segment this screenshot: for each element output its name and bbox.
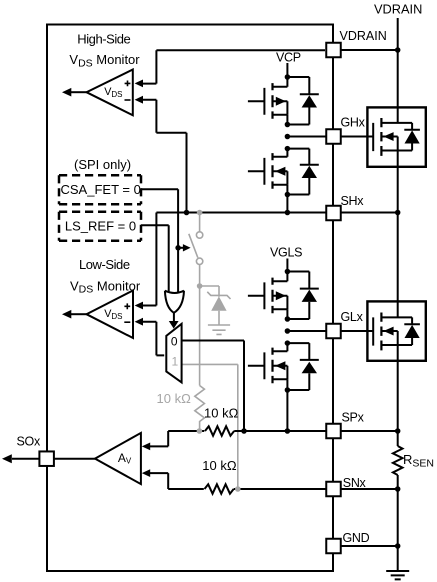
node (GND / ground) bbox=[395, 543, 401, 549]
svg-text:SOx: SOx bbox=[17, 434, 41, 448]
op-amp U1 (high-side VDS monitor) bbox=[87, 70, 133, 116]
wire (mux input 0 to SPx) bbox=[182, 341, 244, 432]
svg-text:VCP: VCP bbox=[276, 51, 301, 65]
box (external low-side FET module) bbox=[367, 301, 425, 360]
wire GLx (driver to square to ext FET gate) bbox=[287, 330, 373, 332]
arrowhead (U3 - input) bbox=[142, 469, 150, 477]
BLACK WIRE LAYER bbox=[47, 18, 409, 579]
border (device outline) bbox=[47, 25, 333, 572]
wire GHx (driver to square to ext FET gate) bbox=[287, 136, 373, 138]
svg-text:10 kΩ: 10 kΩ bbox=[202, 458, 237, 473]
svg-text:VGLS: VGLS bbox=[270, 246, 302, 260]
terminal GHx bbox=[326, 129, 341, 144]
wire (low-side monitor - input to mux out) bbox=[143, 322, 165, 356]
diode D4 (body diode of Q3) bbox=[287, 272, 318, 320]
wire (switch to grey node) bbox=[199, 265, 201, 287]
node (Q4 source / D5 anode) bbox=[285, 387, 291, 393]
wire (CSA_FET box to OR gate) bbox=[141, 189, 178, 292]
OR gate U4 bbox=[165, 291, 184, 313]
wire (ext FET1 source to SHx and down to ext FET2) bbox=[397, 151, 399, 318]
node (Q2 drain / D3) bbox=[285, 146, 291, 152]
terminal SNx bbox=[326, 482, 341, 497]
transistor Q3 (internal driver, high-side of GLx, P-type) bbox=[248, 272, 288, 320]
wire SHx (monitor corner to square to ext rail) bbox=[156, 212, 397, 214]
wire VGLS to driver FETs bbox=[286, 259, 288, 272]
svg-text:CSA_FET = 0: CSA_FET = 0 bbox=[61, 182, 141, 197]
op-amp U3 (current sense amplifier Av) bbox=[95, 433, 141, 484]
node (Q4 drain / D5) bbox=[285, 340, 291, 346]
node (SHx / monitor -) bbox=[184, 210, 190, 216]
pin + (U2) bbox=[124, 303, 130, 309]
node (GLx) bbox=[285, 328, 291, 334]
terminal SOx bbox=[39, 451, 54, 466]
resistor RSEN bbox=[393, 446, 403, 475]
wire (Av - input to SNx resistor) bbox=[149, 473, 204, 489]
resistor 10k (grey, SPx pull) bbox=[195, 386, 205, 432]
zener diode D1 (grey clamp) bbox=[207, 292, 230, 325]
wire VDRAIN rail (external, top) bbox=[397, 18, 399, 123]
node (VCP) bbox=[285, 74, 291, 80]
terminal GLx bbox=[326, 324, 341, 339]
transistor Q5 (external high-side power FET) bbox=[367, 118, 413, 156]
wire (SHx tap to switch) bbox=[199, 213, 201, 233]
GREY LAYER bbox=[157, 213, 238, 490]
wire VCP to driver FETs bbox=[286, 63, 288, 77]
dashed box (CSA_FET = 0, SPI register) bbox=[59, 175, 141, 204]
box (external high-side FET module) bbox=[367, 107, 425, 166]
wire GND (square to ext ground) bbox=[333, 545, 398, 547]
wire (SOx square to Av) bbox=[47, 458, 95, 460]
resistor 10k (SNx sense, black) bbox=[205, 484, 234, 493]
node (SHx / external rail) bbox=[395, 210, 401, 216]
GREY JUNCTION DOTS (over wires) bbox=[197, 210, 241, 492]
node (SHx / driver) bbox=[285, 210, 291, 216]
node (grey junction on SNx wire) bbox=[235, 486, 241, 492]
arrowhead (U3 + input) bbox=[142, 443, 150, 451]
wire SPx (resistor to square to ext rail) bbox=[234, 430, 398, 432]
diode D5 (body diode of Q4) bbox=[287, 343, 318, 390]
node (Q1 source / D2) bbox=[285, 122, 291, 128]
mux M1 (LS_REF select) bbox=[166, 324, 181, 383]
transistor Q4 (internal driver, low-side of GLx, N-type) bbox=[248, 343, 288, 390]
node (CSA_FET line / switch arrow) bbox=[175, 245, 181, 251]
diode D2 (body diode of Q1) bbox=[287, 77, 318, 125]
pin + (U1) bbox=[125, 81, 131, 87]
wire (driver chain bottom to SPx) bbox=[286, 390, 288, 431]
transistor Q1 (internal driver, high-side of GHx, P-type) bbox=[248, 77, 288, 125]
pin - (U1) bbox=[125, 99, 131, 101]
TERMINAL SQUARES bbox=[39, 43, 340, 554]
node (grey junction on SPx wire) bbox=[197, 428, 203, 434]
diode D6 (body diode of Q5) bbox=[404, 123, 420, 151]
arrowhead (U1 - input) bbox=[135, 96, 143, 104]
node (VGLS) bbox=[285, 269, 291, 275]
svg-text:0: 0 bbox=[171, 334, 178, 348]
wire SPx (left segment with Av + input) bbox=[149, 431, 204, 446]
node (SNx / RSEN) bbox=[395, 486, 401, 492]
resistor 10k (SPx sense, black) bbox=[205, 426, 234, 435]
wire (RSEN to GND node and ground) bbox=[397, 475, 399, 571]
svg-text:GLx: GLx bbox=[341, 310, 364, 324]
terminal GND bbox=[326, 539, 341, 554]
wire (VDS monitor + input to VDRAIN) bbox=[143, 50, 325, 83]
transistor Q6 (external low-side power FET) bbox=[367, 313, 413, 351]
wire (Q2 source to SHx) bbox=[286, 195, 288, 213]
svg-text:SPx: SPx bbox=[342, 411, 365, 425]
node (SPx / driver) bbox=[285, 428, 291, 434]
svg-text:(SPI only): (SPI only) bbox=[74, 157, 131, 172]
wire (grey node down to resistor) bbox=[199, 286, 201, 386]
diode D3 (body diode of Q2) bbox=[287, 149, 318, 195]
switch S1 (CSA_FET controlled, grey) bbox=[189, 232, 203, 265]
wire (low-side monitor + input to SHx wire) bbox=[143, 213, 157, 306]
svg-text:VDRAIN: VDRAIN bbox=[340, 29, 387, 43]
wire SNx (resistor to square to ext rail) bbox=[234, 488, 398, 490]
op-amp U2 (low-side VDS monitor) bbox=[87, 291, 134, 339]
wire (grey node to zener) bbox=[200, 286, 219, 297]
terminal SPx bbox=[326, 424, 341, 439]
wire (SOx output arrow) bbox=[12, 458, 39, 460]
wire (LS_REF box to OR gate) bbox=[141, 225, 169, 292]
svg-text:SHx: SHx bbox=[341, 194, 365, 208]
svg-text:LS_REF = 0: LS_REF = 0 bbox=[65, 219, 136, 234]
transistor Q2 (internal driver, low-side of GHx, N-type) bbox=[248, 149, 288, 195]
wire (OR output arrow to mux select) bbox=[173, 313, 175, 321]
svg-text:High-Side: High-Side bbox=[77, 32, 130, 47]
svg-text:VDRAIN: VDRAIN bbox=[374, 2, 422, 17]
wire (VDRAIN square to rail) bbox=[341, 49, 398, 51]
arrowhead (U2 + input) bbox=[135, 302, 143, 310]
ground (zener, grey) bbox=[208, 325, 230, 334]
svg-text:10 kΩ: 10 kΩ bbox=[157, 391, 192, 406]
node (grey tap on SHx wire) bbox=[197, 210, 203, 216]
svg-text:10 kΩ: 10 kΩ bbox=[204, 406, 239, 421]
terminal VDRAIN bbox=[326, 43, 341, 58]
ground (power ground, bottom right) bbox=[386, 571, 409, 579]
terminal SHx bbox=[326, 206, 341, 221]
arrowhead (U1 + input) bbox=[135, 80, 143, 88]
svg-text:GHx: GHx bbox=[341, 115, 366, 129]
wire (ext FET2 source down to RSEN) bbox=[397, 345, 399, 446]
node (Q2 source) bbox=[285, 192, 291, 198]
node (SPx / mux0) bbox=[241, 428, 247, 434]
node (grey junction at switch bottom) bbox=[197, 283, 203, 289]
arrowhead (U2 - input) bbox=[135, 318, 143, 326]
node (Q3 source / D4) bbox=[285, 316, 291, 322]
pin - (U2) bbox=[124, 321, 130, 323]
wire (VDS monitor - input to SHx) bbox=[143, 100, 187, 213]
svg-text:SNx: SNx bbox=[343, 476, 367, 490]
svg-text:1: 1 bbox=[172, 355, 179, 369]
svg-text:GND: GND bbox=[343, 531, 370, 545]
arrowhead (CSA_FET control to switch) bbox=[178, 247, 183, 249]
node (VDRAIN rail) bbox=[395, 47, 401, 53]
wire (U1 output arrow) bbox=[71, 91, 87, 93]
node (SPx / RSEN) bbox=[395, 428, 401, 434]
wire (mux input 1 to SNx, grey) bbox=[182, 364, 238, 489]
dashed box (LS_REF = 0, SPI register) bbox=[59, 212, 141, 241]
diode D7 (body diode of Q6) bbox=[404, 317, 420, 345]
node (GHx) bbox=[285, 134, 291, 140]
svg-text:Low-Side: Low-Side bbox=[79, 257, 130, 272]
wire (U2 output arrow) bbox=[71, 313, 87, 315]
